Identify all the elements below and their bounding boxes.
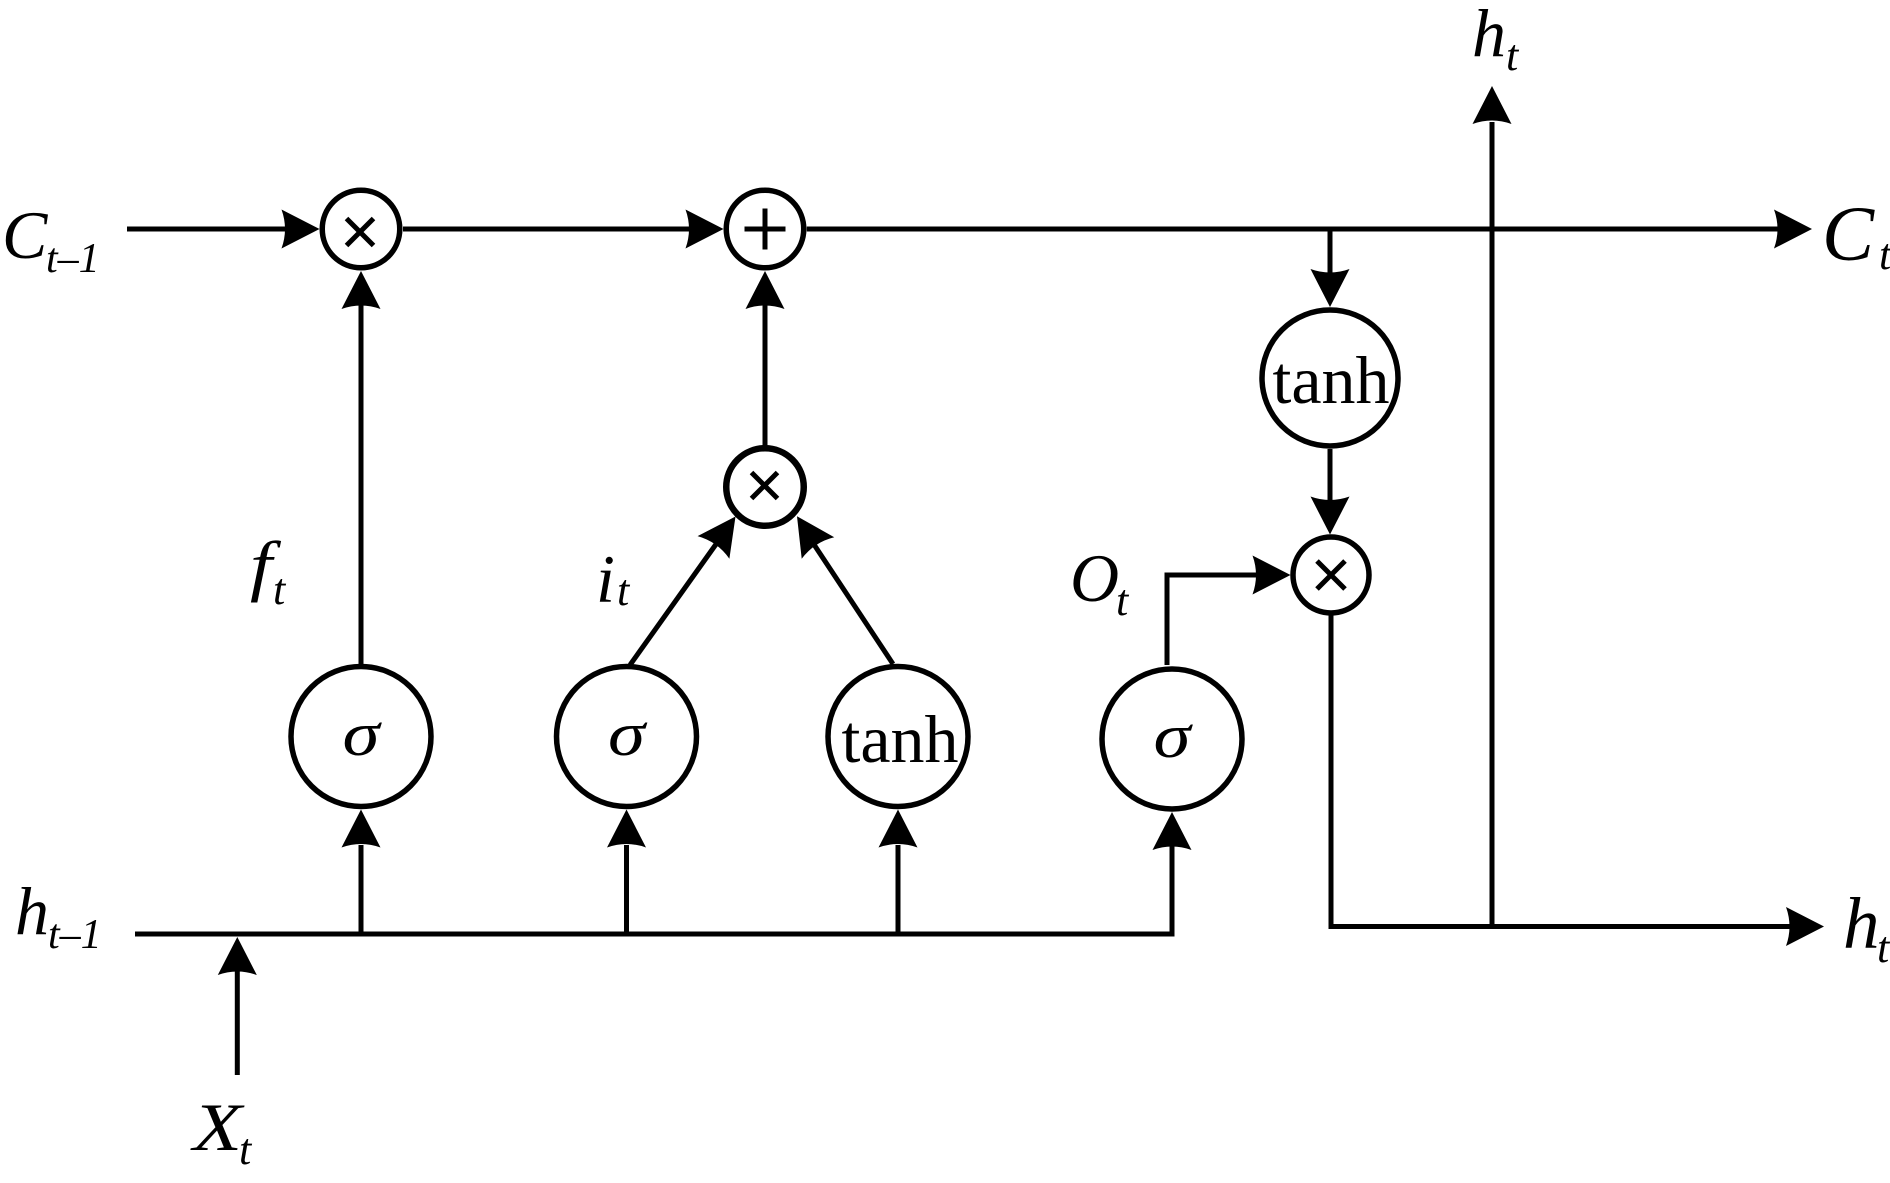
wire riser M2 to adder A1 [763,305,768,446]
svg-text:t: t [1506,31,1520,80]
adder node A1 (cell state sum) [726,190,804,268]
wire f(t) riser from sigma S1 to M1 [359,305,364,664]
svg-text:t: t [239,1125,253,1174]
svg-text:C: C [2,197,48,273]
label h(t) bottom right [1843,883,1890,972]
multiply node M3 (output gate product) [1293,537,1369,613]
arrowhead into sigma S2 [607,810,646,848]
arrowhead into adder from M2 [746,271,785,309]
wire up-arrow into tanh T2 [896,845,901,934]
svg-text:σ: σ [1154,703,1194,771]
wire h(t) riser to top output [1490,122,1495,927]
label O(t) [1070,540,1130,625]
arrowhead into adder A1 [686,210,724,249]
arrowhead into M1 from f(t) [342,271,381,309]
arrowhead X(t) into h(t-1) rail [218,937,257,975]
arrowhead h(t) top output [1473,86,1512,124]
multiply node M2 (input gate product) [726,448,804,526]
wire up-arrow into sigma S1 [359,845,364,934]
arrowhead into tanh T2 [879,810,918,848]
wire C(t-1) input to multiply node [127,227,289,232]
svg-text:i: i [596,541,615,617]
arrowhead into multiply M1 [282,210,320,249]
arrowhead h(t) right output [1786,907,1824,946]
wire up-arrow into sigma S2 [624,845,629,934]
svg-text:t–1: t–1 [46,236,100,282]
wire X(t) input arrow [235,970,240,1075]
svg-text:C: C [1822,190,1875,277]
arrowhead into sigma S3 [1153,812,1192,850]
label h(t-1) [15,873,102,958]
wire adder to C(t) output [807,227,1781,232]
arrowhead into M3 from O(t) [1253,556,1291,595]
wire O(t) from sigma S3 to M3 [1167,575,1258,665]
label C(t-1) [2,197,100,282]
svg-text:σ: σ [343,701,383,769]
svg-text:t: t [1116,576,1130,625]
svg-text:tanh: tanh [841,701,958,777]
tanh gate T2 (candidate activation) [828,667,968,807]
label i(t) [596,541,631,617]
arrowhead into M2 from T2 [781,506,834,559]
sigma gate S1 (forget gate) [291,667,431,807]
svg-text:t: t [273,565,287,614]
arrowhead C(t) output [1774,210,1812,249]
sigma gate S3 (output gate) [1102,669,1242,809]
label f(t) [250,527,287,614]
arrowhead into M3 from T1 [1311,497,1350,535]
arrowhead into tanh T1 [1311,269,1350,307]
multiply node M1 (cell-state forget gate product) [322,190,400,268]
wire M1 to adder [403,227,692,232]
svg-text:t–1: t–1 [48,912,102,958]
label X(t) [189,1089,253,1174]
arrowhead into sigma S1 [342,810,381,848]
svg-text:h: h [15,873,49,949]
sigma gate S2 (input gate) [557,667,697,807]
wire M3 output down and right to h(t) [1331,614,1790,927]
wire h(t-1) bottom rail turning up into sigma S3 [135,846,1172,934]
label C(t) [1822,190,1890,279]
arrowhead into M2 from i(t) [698,505,752,559]
svg-text:tanh: tanh [1272,342,1389,418]
wire i(t) diagonal from sigma S2 to M2 [630,540,719,665]
wire T1 to multiply M3 [1328,449,1333,502]
svg-text:h: h [1472,0,1506,71]
wire branch down to tanh T1 [1328,229,1333,274]
wire diagonal from tanh T2 to M2 [813,543,893,664]
svg-text:t: t [1879,230,1890,279]
svg-text:X: X [189,1089,244,1165]
tanh node T1 (output activation) [1262,310,1398,446]
svg-text:σ: σ [608,701,648,769]
svg-text:t: t [617,566,631,615]
svg-text:h: h [1843,883,1880,964]
svg-text:t: t [1877,923,1890,972]
label h(t) top [1472,0,1520,80]
svg-text:O: O [1070,540,1119,616]
